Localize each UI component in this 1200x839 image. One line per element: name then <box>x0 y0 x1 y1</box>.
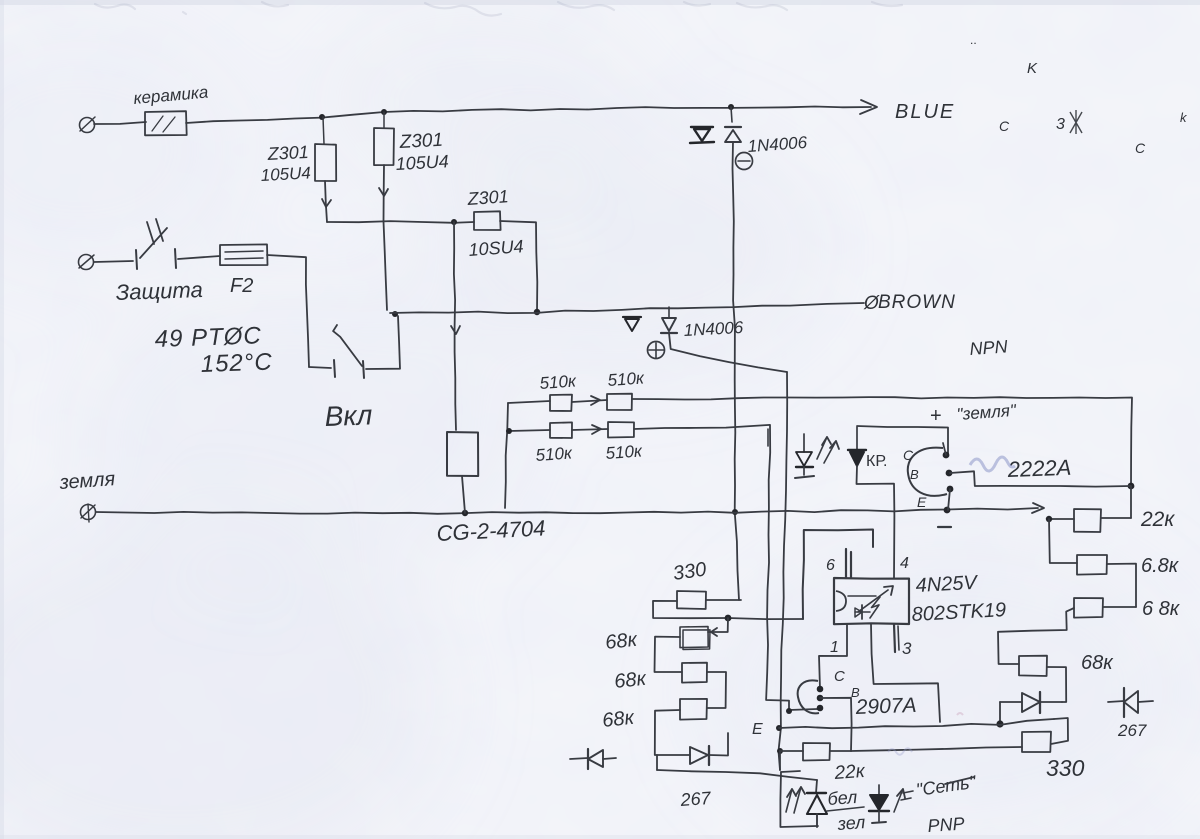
svg-text:105U4: 105U4 <box>395 151 449 174</box>
svg-text:Z301: Z301 <box>466 186 509 209</box>
svg-text:1: 1 <box>830 639 839 656</box>
svg-text:Вкл: Вкл <box>324 399 373 432</box>
svg-text:105U4: 105U4 <box>260 163 311 185</box>
svg-text:267: 267 <box>679 788 712 810</box>
svg-text:NPN: NPN <box>969 336 1009 359</box>
svg-text:4: 4 <box>900 555 909 572</box>
svg-text:510к: 510к <box>605 441 644 463</box>
svg-text:22к: 22к <box>1140 508 1175 531</box>
svg-text:49 PTØC: 49 PTØC <box>154 322 262 353</box>
svg-text:C: C <box>1135 140 1146 156</box>
svg-text:68к: 68к <box>1081 652 1114 674</box>
svg-text:КР.: КР. <box>866 453 887 470</box>
svg-text:510к: 510к <box>539 371 578 393</box>
svg-text:330: 330 <box>1046 755 1085 781</box>
svg-text:152°C: 152°C <box>200 349 273 378</box>
svg-text:Z301: Z301 <box>398 130 443 153</box>
svg-text:Z301: Z301 <box>266 142 309 164</box>
svg-text:E: E <box>917 494 927 510</box>
svg-text:6.8к: 6.8к <box>1141 555 1180 577</box>
svg-text:BLUE: BLUE <box>895 101 955 123</box>
svg-text:510к: 510к <box>607 368 646 390</box>
svg-text:10SU4: 10SU4 <box>468 236 524 260</box>
svg-text:68к: 68к <box>613 668 648 693</box>
svg-text:Защита: Защита <box>115 277 203 305</box>
svg-text:2907A: 2907A <box>854 694 916 719</box>
svg-text:C: C <box>903 447 914 463</box>
svg-text:22к: 22к <box>833 761 867 784</box>
svg-text:330: 330 <box>672 559 708 585</box>
svg-text:C: C <box>999 118 1010 134</box>
svg-text:E: E <box>752 721 763 738</box>
svg-text:510к: 510к <box>535 443 574 465</box>
svg-text:зел: зел <box>836 812 866 834</box>
svg-text:68к: 68к <box>601 707 636 732</box>
svg-text:C: C <box>834 668 845 685</box>
svg-text:6: 6 <box>826 557 835 574</box>
svg-text:..: .. <box>970 33 977 47</box>
svg-text:68к: 68к <box>604 629 639 654</box>
svg-text:PNP: PNP <box>927 813 965 836</box>
svg-text:3: 3 <box>902 639 912 658</box>
svg-text:BROWN: BROWN <box>878 292 956 313</box>
svg-text:+: + <box>930 405 942 427</box>
svg-text:2222A: 2222A <box>1006 455 1071 482</box>
svg-text:бел: бел <box>827 787 858 809</box>
svg-text:земля: земля <box>58 468 116 494</box>
svg-text:267: 267 <box>1117 721 1147 740</box>
svg-text:B: B <box>910 467 919 482</box>
svg-text:F2: F2 <box>230 275 253 297</box>
svg-text:3: 3 <box>1056 116 1065 133</box>
svg-text:K: K <box>1027 60 1038 77</box>
svg-text:6 8к: 6 8к <box>1142 598 1181 620</box>
svg-text:4N25V: 4N25V <box>915 572 979 597</box>
